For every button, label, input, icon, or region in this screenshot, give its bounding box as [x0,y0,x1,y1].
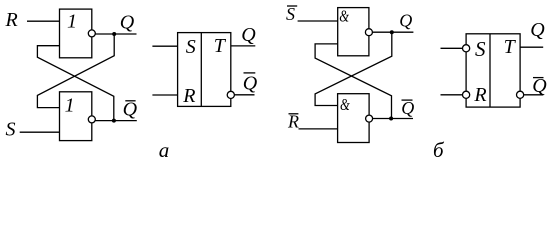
svg-text:R: R [473,84,486,106]
junction dot Qbar [389,117,393,121]
svg-text:Q: Q [120,12,135,34]
trigger U1 divider [200,33,202,107]
bubble S input [463,45,470,52]
wire R input of trigger U1 [152,94,177,96]
wire Q output of U2 [520,46,543,48]
junction dot Q [390,30,394,34]
overline of Qbar [533,77,544,79]
wire R input [27,20,60,22]
svg-text:R: R [5,9,18,31]
junction dot Qbar [112,119,116,123]
svg-text:&: & [339,7,349,26]
svg-text:T: T [214,35,227,57]
svg-text:1: 1 [67,11,77,33]
svg-text:Q: Q [530,19,545,41]
wire R input of trigger U2 [441,94,463,96]
overline of Qbar [125,100,135,102]
wire Qbar output [95,120,137,122]
bubble Qbar output of U1 [227,91,234,98]
svg-text:Q: Q [399,11,412,31]
svg-text:Q: Q [241,24,256,46]
gate DD2.1 body [338,8,369,56]
svg-text:Q: Q [243,72,258,94]
overline of Qbar [402,99,413,101]
wire Qbar output of U1 [234,94,254,96]
bubble R input [463,91,470,98]
gate DD2.2 body [338,94,370,143]
overline of Sbar [287,5,297,7]
overline of Rbar [289,113,299,115]
wire S input of trigger U2 [441,47,463,49]
wire S input of trigger U1 [152,45,177,47]
wire Q output of U1 [231,45,256,47]
svg-text:1: 1 [65,94,75,116]
svg-text:S: S [286,4,295,24]
wire Q output [95,33,136,35]
svg-text:Q: Q [401,98,414,118]
svg-text:&: & [340,95,350,114]
bubble gate DD2.2 output [366,115,373,122]
wire cross-coupling Qbar to gate DD1.1 input [37,46,113,121]
svg-text:S: S [475,37,486,61]
svg-text:S: S [6,119,16,141]
svg-text:R: R [182,85,195,107]
bubble gate DD1.1 output [88,30,95,37]
overline of Qbar [244,72,256,74]
gate DD1.2 body [60,92,92,141]
trigger U2 divider [489,34,491,107]
svg-text:T: T [504,36,517,58]
wire Qbar output [373,118,413,120]
wire Q output [372,31,413,33]
wire Rbar input [299,128,338,130]
svg-text:б: б [433,138,445,162]
bubble Qbar output of U2 [517,91,524,98]
trigger U1 body [178,33,231,107]
trigger U2 body [466,34,520,107]
gate DD1.1 body [60,9,92,58]
wire cross-coupling Qbar to gate DD2.1 input [315,44,391,119]
svg-text:Q: Q [123,98,138,120]
bubble gate DD2.1 output [365,29,372,36]
wire cross-coupling Q to gate DD2.2 input [315,32,392,105]
junction dot Q [112,32,116,36]
wire Sbar input [298,20,338,22]
wire Qbar output of U2 [524,94,544,96]
svg-text:R: R [287,112,299,132]
svg-text:S: S [186,36,196,58]
bubble gate DD1.2 output [88,116,95,123]
wire cross-coupling Q to gate DD1.2 input [37,34,114,108]
wire S input [20,131,60,133]
svg-text:а: а [159,138,170,162]
